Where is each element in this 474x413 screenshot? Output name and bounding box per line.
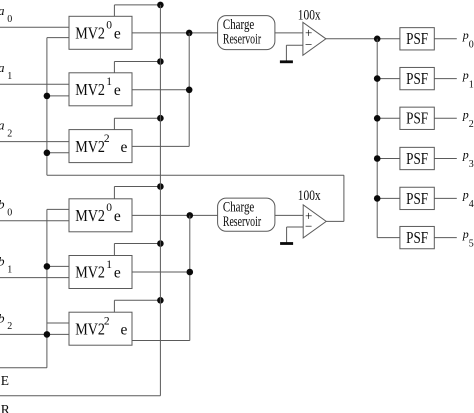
PSF block 1 — [400, 67, 434, 89]
wire E line — [0, 395, 160, 397]
svg-text:100x: 100x — [298, 188, 321, 204]
svg-text:a: a — [0, 118, 5, 133]
svg-text:e: e — [121, 321, 128, 338]
wire charge reservoir 1 to amp1 — [275, 32, 303, 34]
svg-text:a: a — [0, 3, 5, 18]
wire PSF 2 tap — [377, 117, 400, 119]
svg-text:1: 1 — [7, 71, 12, 82]
svg-text:MV2: MV2 — [75, 24, 105, 43]
charge reservoir 2 — [218, 198, 275, 231]
wire feedback vertical a-side — [46, 38, 48, 176]
wire PSF 4 output — [434, 197, 457, 199]
wire b-cell0 output to charge reservoir 2 — [132, 214, 218, 216]
MV2 cell b1 box — [69, 199, 132, 232]
input b1 wire — [0, 277, 69, 279]
wire PSF 3 output — [434, 158, 457, 160]
svg-text:p: p — [462, 28, 469, 42]
svg-text:p: p — [462, 188, 469, 202]
junction a-cell1 output — [186, 87, 193, 94]
junction amp1 output at PSF bus — [374, 36, 381, 43]
wire PSF 3 tap — [377, 158, 400, 160]
wire amp2 output — [326, 175, 344, 221]
wire feedback vertical b-side — [46, 209, 48, 367]
junction busE tap b2 — [157, 240, 164, 247]
MV2 cell a3 box — [69, 130, 132, 163]
svg-text:e: e — [114, 265, 121, 282]
op-amp 2 (100x) — [298, 188, 326, 238]
svg-text:PSF: PSF — [406, 149, 428, 168]
wire feedback input b-cell2 — [47, 322, 69, 324]
wire amp1 inverting input — [286, 44, 303, 46]
junction busE tap a3 — [157, 115, 164, 122]
PSF block 4 — [400, 187, 434, 209]
wire PSF 5 output — [434, 237, 457, 239]
svg-text:0: 0 — [7, 208, 12, 219]
wire a output bus — [188, 33, 190, 146]
junction feedback a-cell2 — [44, 150, 51, 157]
wire PSF 2 output — [434, 117, 457, 119]
wire amp2 output feedback line — [47, 174, 344, 176]
svg-text:p: p — [462, 108, 469, 122]
svg-text:MV2: MV2 — [75, 137, 105, 156]
svg-text:Reservoir: Reservoir — [223, 32, 261, 48]
svg-text:MV2: MV2 — [75, 319, 105, 338]
junction busE tap b1 — [157, 183, 164, 190]
svg-text:3: 3 — [469, 159, 474, 170]
junction PSF 1 tap — [374, 75, 381, 82]
PSF block 5 — [400, 226, 434, 248]
svg-text:b: b — [0, 310, 5, 325]
label b2 — [0, 310, 12, 332]
wire E bus vertical — [159, 5, 161, 396]
input a0 wire — [0, 26, 69, 28]
svg-text:0: 0 — [469, 40, 474, 51]
wire PSF 1 tap — [377, 78, 400, 80]
wire a-cell0 output to charge reservoir 1 — [132, 32, 218, 34]
PSF block 0 — [400, 28, 434, 50]
svg-text:1: 1 — [7, 264, 12, 275]
svg-text:PSF: PSF — [406, 29, 428, 48]
wire PSF 1 output — [434, 78, 457, 80]
input b0 wire — [0, 220, 69, 222]
wire PSF bus vertical — [376, 39, 378, 238]
svg-text:0: 0 — [106, 202, 112, 214]
svg-text:b: b — [0, 197, 5, 212]
label p4 — [462, 188, 474, 211]
svg-text:−: − — [305, 219, 312, 234]
label b1 — [0, 254, 12, 276]
svg-text:PSF: PSF — [406, 228, 428, 247]
wire b2 top terminal stub — [114, 244, 160, 256]
svg-text:100x: 100x — [298, 8, 321, 24]
label p1 — [462, 68, 474, 91]
svg-text:MV2: MV2 — [75, 80, 105, 99]
wire PSF 0 output — [434, 38, 457, 40]
svg-text:1: 1 — [106, 76, 112, 88]
junction busE tap a2 — [157, 58, 164, 65]
svg-text:MV2: MV2 — [75, 263, 105, 282]
wire feedback input b-cell1 — [47, 265, 69, 267]
label p0 — [462, 28, 474, 51]
wire a3 top terminal stub — [114, 118, 160, 129]
svg-text:Reservoir: Reservoir — [223, 214, 261, 230]
wire feedback input b-cell0 — [47, 208, 69, 210]
MV2 cell a2 box — [69, 73, 132, 106]
svg-text:p: p — [462, 148, 469, 162]
svg-text:e: e — [121, 139, 128, 156]
svg-text:5: 5 — [469, 238, 474, 249]
wire b output bus — [189, 215, 191, 340]
svg-text:4: 4 — [469, 199, 474, 210]
wire b3 top terminal stub — [114, 300, 160, 312]
wire feedback input a-cell1 — [47, 95, 69, 97]
svg-text:2: 2 — [7, 321, 12, 332]
wire b1 top terminal stub — [114, 187, 160, 199]
MV2 cell b3 box — [69, 312, 132, 345]
svg-text:2: 2 — [104, 316, 110, 328]
svg-text:1: 1 — [106, 259, 112, 271]
junction feedback a-cell1 — [44, 93, 51, 100]
svg-text:R: R — [1, 402, 10, 413]
wire b-side exit line — [0, 367, 47, 369]
svg-text:2: 2 — [7, 128, 12, 139]
op-amp 1 (100x) — [298, 8, 326, 56]
label p5 — [462, 227, 474, 250]
svg-text:a: a — [0, 60, 5, 75]
wire PSF 5 tap — [377, 237, 400, 239]
svg-text:PSF: PSF — [406, 69, 428, 88]
label a0 — [0, 3, 12, 25]
wire b-cell1 output — [132, 271, 190, 273]
junction input b2 on vertical — [44, 331, 51, 338]
junction b-cell1 output — [187, 269, 194, 276]
wire amp1 output — [326, 38, 400, 40]
wire a1 top terminal stub — [114, 5, 160, 16]
wire a-cell1 output — [132, 89, 189, 91]
svg-text:PSF: PSF — [406, 189, 428, 208]
junction PSF 4 tap — [374, 195, 381, 202]
wire feedback input a-cell2 — [47, 152, 69, 154]
svg-text:E: E — [1, 373, 9, 388]
svg-text:PSF: PSF — [406, 109, 428, 128]
charge reservoir 1 — [218, 16, 275, 50]
label p2 — [462, 108, 474, 131]
svg-text:0: 0 — [7, 14, 12, 25]
svg-text:0: 0 — [106, 20, 112, 32]
junction busE tap a1 — [157, 2, 164, 9]
label a2 — [0, 118, 12, 140]
wire a-cell2 output — [132, 145, 189, 147]
svg-text:p: p — [462, 68, 469, 82]
label p3 — [462, 148, 474, 171]
wire feedback input a-cell0 — [47, 37, 69, 39]
junction PSF 3 tap — [374, 155, 381, 162]
svg-text:1: 1 — [469, 79, 474, 90]
input a2 wire — [0, 141, 69, 143]
svg-text:−: − — [305, 37, 312, 52]
junction busE tap b3 — [157, 297, 164, 304]
svg-text:e: e — [114, 26, 121, 43]
wire charge reservoir 2 to amp2 — [275, 214, 303, 216]
wire a2 top terminal stub — [114, 62, 160, 73]
junction a output bus top — [186, 30, 193, 37]
ground amp1 — [280, 45, 293, 62]
junction b output bus top — [187, 212, 194, 219]
svg-text:MV2: MV2 — [75, 206, 105, 225]
junction feedback b-cell1 — [44, 263, 51, 270]
svg-text:p: p — [462, 227, 469, 241]
svg-text:e: e — [114, 208, 121, 225]
wire PSF 4 tap — [377, 197, 400, 199]
label a1 — [0, 60, 12, 82]
label b0 — [0, 197, 12, 219]
wire b-cell2 output — [132, 340, 190, 342]
junction PSF 2 tap — [374, 115, 381, 122]
svg-text:e: e — [114, 82, 121, 99]
svg-text:2: 2 — [104, 133, 110, 145]
PSF block 2 — [400, 107, 434, 129]
PSF block 3 — [400, 147, 434, 169]
wire amp2 inverting input — [287, 226, 304, 228]
MV2 cell a1 box — [69, 16, 132, 49]
input a1 wire — [0, 83, 69, 85]
svg-text:b: b — [0, 254, 5, 269]
ground amp2 — [280, 227, 293, 244]
MV2 cell b2 box — [69, 256, 132, 289]
svg-text:2: 2 — [469, 119, 474, 130]
input b2 wire — [0, 333, 69, 335]
